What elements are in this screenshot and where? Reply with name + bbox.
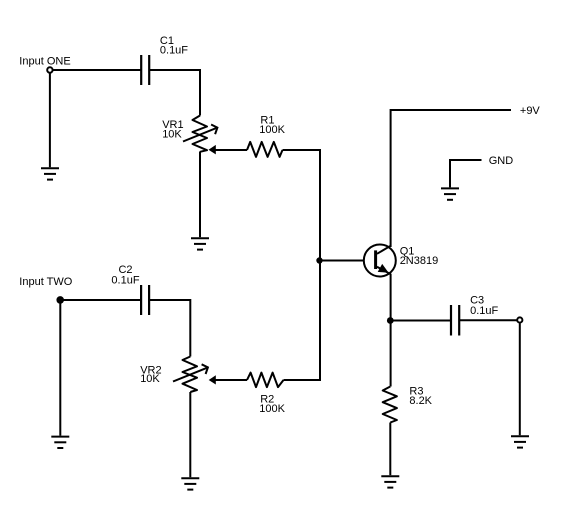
node A junction dot (base bus) — [316, 257, 322, 263]
svg-text:0.1uF: 0.1uF — [111, 275, 139, 287]
svg-text:GND: GND — [489, 155, 514, 167]
potentiometer VR2 — [173, 357, 208, 393]
potentiometer VR1 — [183, 116, 217, 152]
svg-text:10K: 10K — [162, 129, 182, 141]
ground (output) — [511, 436, 529, 447]
terminal Input ONE — [47, 67, 52, 72]
node B junction dot (emitter/output) — [387, 317, 394, 324]
wire VR1 wiper to R1 — [216, 149, 248, 151]
wire Input ONE terminal down to ground — [49, 73, 51, 167]
resistor R1 — [247, 142, 283, 157]
VR1 wiper arrowhead — [209, 145, 216, 155]
capacitor C3 — [451, 305, 459, 336]
VR2 wiper arrowhead — [209, 375, 216, 384]
capacitor C1 — [141, 55, 149, 85]
terminal Input TWO — [56, 296, 64, 304]
wire main vertical bus R1 to R2 — [319, 149, 321, 381]
terminal output — [517, 317, 522, 322]
wire C3 to output terminal — [459, 319, 520, 321]
wire R3 bottom to ground — [389, 423, 391, 476]
wire +9V rail to Q1 collector — [391, 110, 511, 247]
svg-text:0.1uF: 0.1uF — [160, 44, 188, 56]
ground (Input ONE) — [41, 168, 59, 179]
wire node A to Q1 base — [320, 260, 374, 262]
ground (R3) — [381, 476, 399, 487]
svg-text:10K: 10K — [140, 373, 160, 385]
svg-text:0.1uF: 0.1uF — [470, 305, 498, 317]
ground (GND flag) — [441, 188, 459, 199]
wire R1 to main vertical bus — [283, 149, 321, 151]
wire C2 to VR2 top — [149, 300, 190, 357]
wire emitter node to C3 — [391, 320, 451, 322]
svg-text:100K: 100K — [259, 403, 285, 415]
wire Input TWO terminal to C2 — [60, 299, 141, 301]
transistor Q1 — [364, 245, 396, 277]
wire output terminal down to ground — [519, 323, 521, 435]
svg-text:+9V: +9V — [520, 105, 541, 117]
wire GND flag — [450, 160, 482, 187]
resistor R3 — [383, 387, 397, 423]
wire VR2 wiper to R2 — [216, 379, 248, 381]
svg-text:2N3819: 2N3819 — [400, 255, 439, 267]
svg-text:Input ONE: Input ONE — [19, 55, 70, 67]
svg-text:100K: 100K — [259, 124, 285, 136]
ground (Input TWO) — [51, 437, 69, 448]
resistor R2 — [247, 373, 284, 388]
wire Input ONE terminal to C1 — [53, 69, 141, 71]
wire C1 to VR1 top — [149, 70, 200, 116]
wire VR1 bottom to ground — [199, 152, 201, 238]
capacitor C2 — [141, 285, 149, 315]
svg-text:Input TWO: Input TWO — [19, 276, 72, 288]
wire VR2 bottom to ground — [189, 392, 191, 477]
ground (VR2) — [181, 478, 199, 489]
svg-text:8.2K: 8.2K — [409, 395, 432, 407]
wire R2 to main vertical bus — [284, 379, 321, 381]
ground (VR1) — [191, 238, 209, 249]
wire Q1 emitter down to R3 — [390, 274, 392, 387]
wire Input TWO terminal down to ground — [59, 303, 61, 436]
